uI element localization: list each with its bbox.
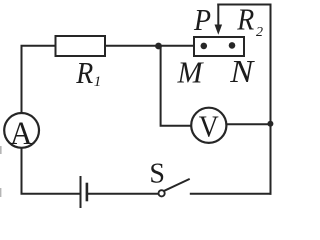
svg-text:1: 1 — [94, 74, 102, 90]
svg-text:P: P — [193, 2, 211, 37]
svg-text:N: N — [229, 53, 255, 89]
svg-text:2: 2 — [256, 25, 263, 40]
svg-text:M: M — [177, 55, 205, 90]
svg-text:V: V — [199, 109, 220, 144]
svg-text:R: R — [75, 55, 93, 90]
svg-text:R: R — [236, 2, 254, 37]
svg-text:S: S — [149, 158, 165, 189]
svg-text:A: A — [10, 116, 33, 152]
